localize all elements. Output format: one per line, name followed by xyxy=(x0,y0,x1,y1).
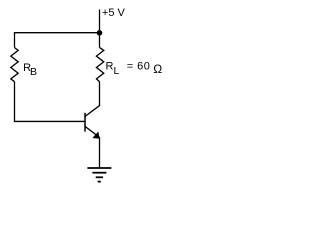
wire: emitter vertical xyxy=(99,137,101,168)
wire: top horizontal rail xyxy=(14,32,100,34)
resistor RL zigzag xyxy=(96,48,103,82)
wire: left branch top xyxy=(14,32,16,48)
wire: base wire horizontal xyxy=(14,120,86,122)
node junction dot xyxy=(97,30,103,36)
ground bar 2 xyxy=(92,172,106,174)
transistor Q1 emitter arrowhead xyxy=(92,132,99,139)
wire: left branch bottom xyxy=(14,82,16,122)
wire: +5V lead vertical xyxy=(99,10,101,33)
ground bar 1 xyxy=(87,167,111,169)
wire: right branch top xyxy=(99,33,101,48)
transistor Q1 collector lead xyxy=(85,105,100,116)
svg-text:+5 V: +5 V xyxy=(102,7,126,19)
svg-text:= 60: = 60 xyxy=(127,60,151,72)
transistor Q1 emitter lead xyxy=(85,126,100,137)
resistor RB zigzag xyxy=(11,48,18,82)
svg-text:R: R xyxy=(106,60,114,72)
transistor Q1 base bar xyxy=(84,113,86,132)
ground bar 4 xyxy=(98,181,101,183)
svg-text:L: L xyxy=(114,65,120,77)
svg-text:Ω: Ω xyxy=(153,62,162,76)
svg-text:B: B xyxy=(30,66,37,78)
ground bar 3 xyxy=(96,176,103,178)
wire: collector vertical xyxy=(99,82,101,106)
